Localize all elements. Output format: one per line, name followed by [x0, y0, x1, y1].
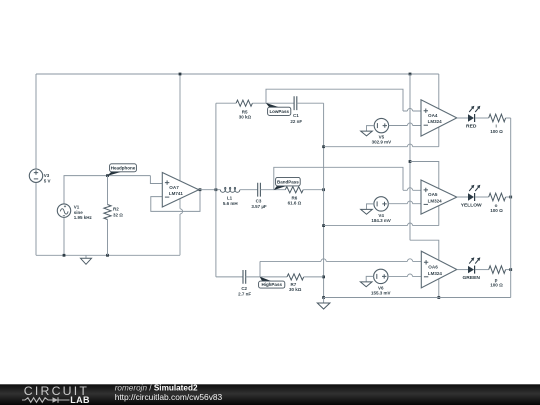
ground symbol mid rail: [317, 298, 330, 310]
label R2 32 ohm: [113, 206, 123, 217]
label o 100 ohm: [490, 203, 503, 213]
node label LowPass flag: [266, 103, 291, 115]
wire to OA7 non-inverting input: [150, 176, 162, 184]
svg-text:Headphone: Headphone: [111, 166, 136, 171]
svg-text:1.95 kHz: 1.95 kHz: [74, 215, 93, 220]
svg-text:GREEN: GREEN: [462, 275, 480, 281]
wire OA7 output row: [199, 189, 221, 191]
svg-text:V3: V3: [44, 173, 50, 178]
svg-text:sine: sine: [74, 210, 84, 215]
junction OA7 output: [199, 188, 202, 191]
wire 5V top rail: [36, 73, 439, 75]
wire LowPass to OA4 +: [266, 89, 421, 111]
node label Headphone flag: [107, 164, 136, 176]
junction supply rail top: [179, 73, 182, 76]
wire V5 to OA4 -: [389, 123, 421, 126]
resistor R7: [287, 274, 304, 280]
svg-text:22 nF: 22 nF: [290, 119, 302, 124]
inductor L1: [220, 187, 239, 192]
ground symbol bottom-left: [81, 255, 92, 264]
op-amp OA5 LM324: [421, 180, 457, 214]
resistor p 100 ohm green: [489, 266, 506, 274]
junction OA6 loop bottom rail: [437, 296, 440, 299]
wire yellow resistor to right rail: [506, 196, 511, 198]
svg-text:OA4: OA4: [428, 113, 438, 118]
svg-text:RED: RED: [466, 123, 477, 129]
svg-text:LM324: LM324: [428, 119, 443, 124]
wire C3 to BandPass node: [260, 189, 285, 191]
wire red resistor to right rail: [506, 117, 511, 119]
logo diode symbol: [53, 397, 70, 403]
wire HighPass to OA6 +: [260, 259, 421, 277]
label V5 302.9 mV: [372, 135, 392, 145]
op-amp OA4 LM324: [421, 100, 457, 136]
voltage source V4: [361, 197, 389, 215]
svg-text:LM741: LM741: [169, 191, 184, 196]
wire C2 to HighPass node: [246, 276, 287, 278]
svg-text:155.3 mV: 155.3 mV: [371, 290, 391, 295]
label C3 3.57 uF: [251, 199, 267, 210]
footer title romerojn / Simulated2: [115, 383, 198, 392]
wire LED RED to resistor: [475, 117, 489, 119]
LED GREEN: [462, 257, 480, 281]
voltage source V1 sine: [57, 204, 70, 217]
wire OA4 loop bottom: [324, 144, 439, 147]
label V4 184.3 mV: [371, 213, 391, 223]
wire bottom rail: [324, 297, 511, 299]
label R7 30 kohm: [289, 282, 302, 292]
voltage source V6: [360, 269, 388, 287]
CircuitLab logo text: [24, 384, 89, 398]
capacitor C2: [243, 270, 246, 284]
op-amp OA6 LM324: [421, 251, 457, 288]
capacitor C1: [294, 96, 297, 110]
wire green resistor to right rail: [506, 269, 511, 271]
label C2 2.7 nF: [238, 286, 251, 296]
svg-text:romerojn / Simulated2: romerojn / Simulated2: [115, 383, 198, 392]
wire branch to C2: [216, 276, 243, 278]
wire branch to R5: [216, 102, 236, 104]
label L1 5.6 mH: [223, 196, 238, 206]
capacitor C3: [258, 183, 261, 197]
svg-text:C1: C1: [293, 113, 299, 118]
svg-text:C3: C3: [256, 199, 262, 204]
svg-text:5.6 mH: 5.6 mH: [223, 201, 238, 206]
wire V1 bottom lead: [63, 217, 65, 255]
svg-text:LAB: LAB: [70, 395, 90, 405]
label C1 22 nF: [290, 113, 302, 124]
svg-text:302.9 mV: 302.9 mV: [372, 140, 392, 145]
wire BandPass to OA5 +: [274, 167, 421, 190]
wire V4 to OA5 -: [388, 201, 421, 204]
logo resistor zigzag: [22, 398, 53, 403]
voltage source V5: [361, 118, 389, 135]
label p 100 ohm: [490, 278, 503, 288]
resistor i 100 ohm red: [489, 114, 506, 122]
svg-text:R6: R6: [292, 195, 298, 200]
wire mid rail vertical: [323, 103, 325, 297]
wire OA4 output: [457, 117, 468, 119]
voltage source V3: [29, 169, 42, 182]
wire LED GREEN to resistor: [475, 269, 489, 271]
label R6 61.6 ohm: [288, 195, 302, 205]
svg-text:BandPass: BandPass: [277, 180, 299, 185]
label V6 155.3 mV: [371, 285, 391, 295]
svg-text:OA6: OA6: [428, 265, 438, 270]
junction mid rail OA5 loop: [322, 224, 325, 227]
node label BandPass flag: [274, 177, 301, 190]
LED YELLOW: [461, 185, 482, 209]
svg-text:LM324: LM324: [428, 271, 443, 276]
wire C1 to mid rail corner: [297, 102, 324, 104]
svg-text:R2: R2: [113, 206, 119, 211]
node label HighPass flag: [259, 277, 285, 289]
footer url: [115, 392, 223, 402]
label i 100 ohm: [490, 124, 503, 134]
svg-text:2.7 nF: 2.7 nF: [238, 292, 251, 297]
svg-text:HighPass: HighPass: [261, 282, 282, 287]
svg-text:100 Ω: 100 Ω: [490, 129, 503, 134]
junction R6 mid rail: [322, 188, 325, 191]
junction V1 bottom rail: [63, 254, 66, 257]
wire right rail: [510, 118, 512, 298]
wire R6 to mid rail: [303, 189, 323, 191]
svg-text:3.57 µF: 3.57 µF: [251, 204, 267, 209]
svg-text:61.6 Ω: 61.6 Ω: [288, 201, 302, 206]
svg-text:V1: V1: [74, 205, 80, 210]
wire filter branch vertical: [215, 103, 217, 277]
svg-text:OA7: OA7: [169, 185, 179, 190]
junction 410 rail OA5 loop: [409, 160, 412, 163]
wire V3 positive lead up: [35, 74, 37, 169]
wire OA6 loop: [410, 240, 439, 297]
wire OA4 loop right side: [438, 74, 440, 147]
svg-text:5 V: 5 V: [44, 178, 51, 183]
LED RED: [466, 106, 480, 130]
svg-text:R5: R5: [242, 109, 248, 114]
junction filter branch node: [215, 188, 218, 191]
footer bar: [0, 384, 540, 405]
junction mid rail OA4 loop: [322, 145, 325, 148]
svg-text:LM324: LM324: [428, 198, 443, 203]
wire OA5 loop: [410, 162, 439, 226]
svg-text:30 kΩ: 30 kΩ: [289, 287, 302, 292]
wire 410 rail vertical: [409, 74, 411, 240]
svg-text:OA5: OA5: [428, 192, 438, 197]
svg-text:http://circuitlab.com/cw56v83: http://circuitlab.com/cw56v83: [115, 392, 223, 402]
wire OA5 loop bottom: [324, 223, 439, 226]
resistor o 100 ohm yellow: [489, 193, 506, 201]
svg-text:184.3 mV: 184.3 mV: [371, 218, 391, 223]
junction right rail green: [509, 268, 512, 271]
label R5 30 kohm: [239, 109, 252, 119]
logo LAB text: [70, 395, 90, 405]
junction mid rail R7: [322, 276, 325, 279]
wire V1 top lead to Headphone node: [64, 176, 150, 204]
wire LED YELLOW to resistor: [475, 196, 489, 198]
resistor R6: [285, 187, 303, 193]
wire R7 to mid rail: [304, 276, 324, 278]
wire supply rail vertical with hop: [180, 74, 183, 255]
svg-text:YELLOW: YELLOW: [461, 202, 482, 208]
resistor R5: [236, 100, 252, 106]
wire OA7 feedback loop: [151, 190, 200, 212]
svg-text:30 kΩ: 30 kΩ: [239, 115, 252, 120]
svg-text:100 Ω: 100 Ω: [490, 208, 503, 213]
junction R2 bottom rail: [106, 254, 109, 257]
wire R5 to C1: [252, 102, 294, 104]
svg-text:32 Ω: 32 Ω: [113, 212, 123, 217]
op-amp OA7 LM741: [162, 173, 199, 208]
wire V6 to OA6 -: [388, 274, 421, 277]
junction mid rail bottom: [322, 296, 325, 299]
svg-text:i: i: [496, 124, 497, 129]
resistor R2: [104, 176, 111, 256]
junction top rail at 410: [409, 73, 412, 76]
wire bottom-left ground rail: [36, 254, 180, 256]
label V3 5V: [44, 173, 51, 184]
wire OA6 output: [457, 269, 468, 271]
svg-text:R7: R7: [291, 282, 297, 287]
svg-text:100 Ω: 100 Ω: [490, 282, 503, 287]
wire OA5 output: [457, 196, 468, 198]
label V1 sine 1.95 kHz: [74, 205, 93, 221]
junction right rail yellow: [509, 196, 512, 199]
svg-text:C2: C2: [241, 286, 247, 291]
wire L1 to C3: [240, 189, 258, 191]
wire V3 negative lead down: [35, 182, 37, 255]
svg-text:LowPass: LowPass: [269, 109, 289, 114]
junction Headphone node: [106, 174, 109, 177]
